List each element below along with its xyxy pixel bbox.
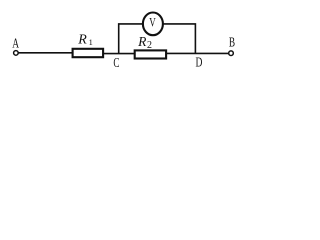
svg-text:V: V: [149, 15, 156, 29]
svg-text:B: B: [229, 35, 235, 50]
svg-text:2: 2: [147, 40, 152, 51]
svg-text:C: C: [113, 55, 119, 70]
svg-text:1: 1: [89, 38, 93, 47]
svg-text:R: R: [77, 32, 87, 47]
svg-text:R: R: [137, 34, 147, 49]
svg-text:A: A: [12, 37, 19, 52]
svg-text:D: D: [196, 54, 203, 69]
